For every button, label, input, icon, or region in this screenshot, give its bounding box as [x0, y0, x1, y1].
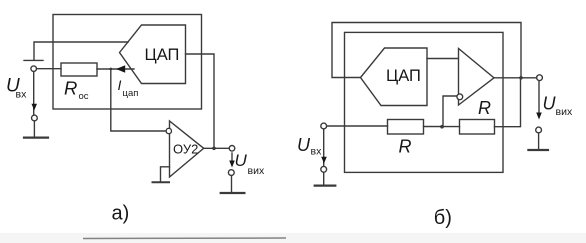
svg-text:R: R — [478, 98, 491, 118]
svg-text:ЦАП: ЦАП — [386, 67, 421, 85]
wire to ground a output — [231, 176, 233, 193]
op-amp inverting input bubble (circuit b) — [457, 94, 463, 100]
wire Uвх node to DAC reference input (top wire) — [34, 42, 128, 60]
svg-text:вих: вих — [556, 106, 573, 118]
svg-text:вх: вх — [16, 89, 28, 101]
terminal Uвих b (upper circle) — [537, 75, 543, 81]
ground (input a) — [24, 137, 48, 139]
current arrow Iцап (points left) — [116, 65, 125, 73]
ground (input b) — [315, 185, 336, 187]
wire feedback resistor R to output node b — [495, 78, 521, 127]
terminal Uвих a (lower circle) — [228, 170, 234, 176]
scan artifact: dark line in band — [83, 237, 286, 240]
svg-text:R: R — [64, 78, 77, 99]
junction output node a — [212, 147, 216, 151]
svg-text:б): б) — [434, 207, 452, 229]
svg-text:I: I — [118, 77, 122, 93]
voltage arrow Uвих a — [231, 153, 233, 162]
resistor R input (circuit b) — [388, 120, 424, 135]
DAC IC boundary box (circuit a) — [53, 15, 202, 110]
ground (output a) — [221, 192, 245, 194]
wire summing node down to op-amp inverting input — [111, 69, 166, 131]
junction output node b — [519, 76, 523, 80]
svg-text:вх: вх — [311, 146, 323, 158]
scan artifact: light band at bottom — [0, 233, 586, 243]
resistor Roc — [61, 63, 97, 76]
terminal Uвх (upper circle) — [31, 66, 37, 72]
IC boundary box (circuit b) — [345, 32, 504, 172]
wire op-amp output to Uвих terminal b — [494, 77, 537, 79]
feedback loop wire: op-amp output around top to DAC input — [332, 23, 521, 78]
wire Uвх terminal to Roc — [37, 68, 62, 70]
svg-text:U: U — [297, 135, 311, 155]
svg-text:R: R — [399, 137, 412, 157]
svg-text:U: U — [543, 94, 557, 114]
svg-text:а): а) — [112, 203, 130, 225]
wire Uвх b terminal down — [323, 129, 325, 166]
wire bubble to feedback node b — [443, 96, 457, 127]
svg-text:ОУ2: ОУ2 — [173, 142, 198, 157]
wire Roc to DAC output (summing node) — [97, 68, 134, 70]
terminal Uвх a (lower circle) — [32, 115, 38, 121]
wire DAC output to op-amp input (circuit b) — [427, 58, 458, 60]
wire op-amp output to Uвих terminal — [204, 147, 229, 149]
terminal Uвих b (lower circle) — [536, 127, 542, 133]
junction feedback node b — [440, 125, 444, 129]
DAC U2 "ЦАП" hexagon body — [361, 48, 428, 106]
terminal Uвх b (upper circle) — [321, 123, 327, 129]
ground (op-amp a) — [153, 181, 170, 183]
wire op-amp non-inverting input to ground — [161, 167, 170, 182]
voltage arrow Uвих b — [538, 81, 540, 112]
resistor R feedback (circuit b) — [460, 120, 495, 135]
ground (output b) — [528, 149, 548, 151]
voltage arrow Uвх a — [32, 104, 38, 111]
svg-text:ос: ос — [79, 91, 89, 102]
op-amp OY2 triangle — [170, 121, 204, 177]
svg-text:U: U — [235, 151, 248, 170]
wire to ground b input — [323, 172, 325, 184]
wire input resistor to feedback node — [424, 126, 460, 128]
terminal Uвх b (lower circle) — [321, 166, 327, 172]
svg-text:цап: цап — [123, 88, 139, 99]
voltage arrow Uвх b — [321, 157, 327, 164]
wire to ground b output — [538, 133, 540, 149]
op-amp triangle (circuit b) — [459, 49, 495, 106]
svg-text:ЦАП: ЦАП — [145, 46, 180, 64]
contact bar at Uвх upper terminal — [24, 59, 43, 61]
wire Uвх terminal down — [33, 72, 35, 116]
wire bottom path: Uвх terminal to input resistor R — [327, 125, 388, 127]
wire to ground a input — [33, 121, 35, 137]
wire DAC feedback: hexagon right side to output node — [186, 54, 215, 148]
terminal Uвих a (upper circle) — [229, 146, 235, 152]
op-amp OY2 inverting input bubble — [166, 128, 171, 133]
junction summing node — [109, 68, 112, 71]
DAC U1 "ЦАП" hexagon body — [120, 25, 186, 84]
svg-text:вих: вих — [248, 165, 265, 177]
